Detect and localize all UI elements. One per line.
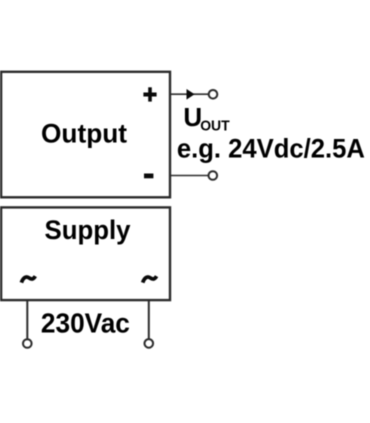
svg-text:OUT: OUT	[200, 118, 230, 135]
ac tilde right	[143, 276, 157, 282]
svg-text:230Vac: 230Vac	[41, 307, 130, 338]
arrow on + wire	[187, 89, 195, 100]
terminal circle supply right	[145, 339, 154, 348]
terminal circle U+	[209, 90, 218, 99]
minus terminal mark -	[144, 174, 153, 179]
svg-text:Supply: Supply	[45, 215, 131, 245]
wire from + output	[170, 93, 208, 95]
terminal circle supply left	[23, 339, 32, 348]
wire from - output	[170, 175, 208, 177]
ac tilde left	[21, 276, 35, 282]
svg-text:Output: Output	[41, 118, 127, 148]
terminal circle U-	[209, 171, 218, 180]
svg-text:e.g. 24Vdc/2.5A: e.g. 24Vdc/2.5A	[177, 133, 365, 163]
wire supply left	[26, 300, 28, 339]
plus terminal mark +	[143, 87, 156, 101]
block Output (box)	[1, 72, 170, 198]
wire supply right	[148, 300, 150, 339]
block Supply (box)	[1, 207, 170, 300]
